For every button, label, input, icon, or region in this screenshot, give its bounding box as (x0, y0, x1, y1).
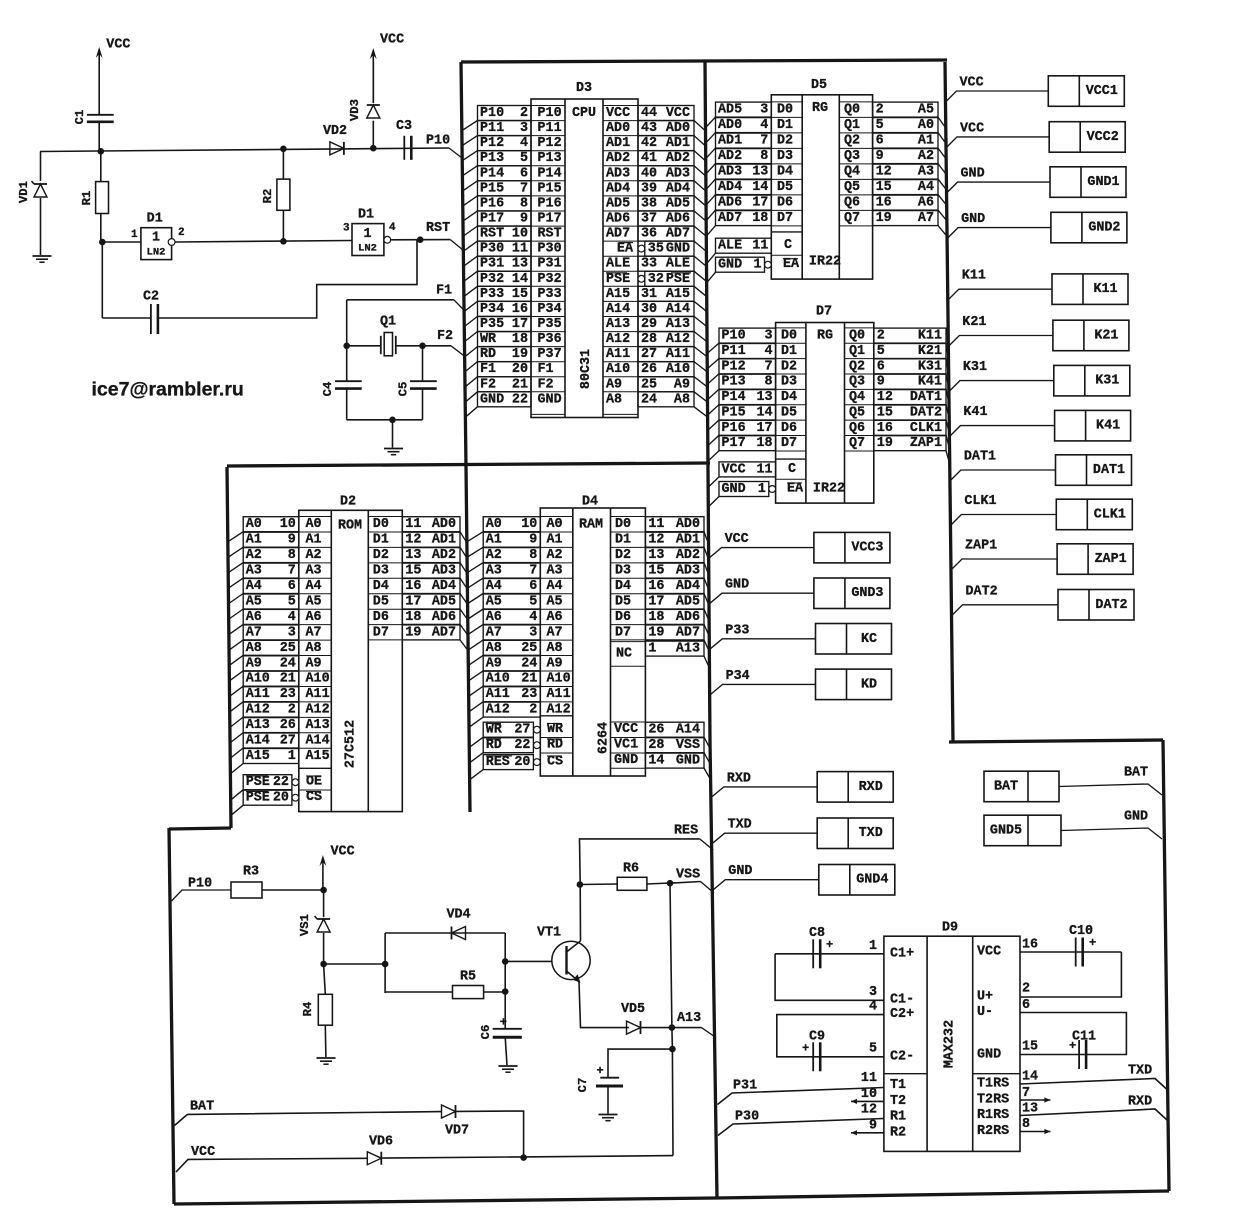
svg-text:VD5: VD5 (621, 1002, 645, 1017)
svg-text:C2: C2 (143, 290, 159, 305)
node junction R6/VSS/C7 riser (667, 880, 674, 887)
wire flag pin 26 net A10 at D3 right (638, 362, 694, 377)
svg-text:VCC: VCC (191, 1145, 215, 1160)
wire flag net GND pin 1 at D5 EA input (716, 257, 765, 272)
svg-text:2: 2 (288, 703, 296, 718)
wire flag net AD4 pin 14 at D5 left (716, 180, 772, 195)
wire flag net A11 pin 23 at D2 left (243, 687, 299, 702)
wire net GND from central bus to GND3 connector (710, 593, 814, 603)
wire flag net A8 pin 25 at D2 left (243, 640, 299, 655)
svg-text:VCC: VCC (106, 38, 130, 53)
svg-text:P31: P31 (538, 257, 562, 272)
svg-text:Q2: Q2 (849, 359, 865, 374)
svg-text:VCC: VCC (380, 33, 404, 48)
wire C10 loop to pin 2 (1020, 952, 1121, 997)
svg-text:AD6: AD6 (676, 610, 700, 625)
svg-text:5: 5 (529, 595, 537, 610)
wire bottom border of bottom-left block (174, 1198, 717, 1204)
svg-text:7: 7 (520, 181, 528, 196)
wire right bus of bottom-right block (1163, 740, 1169, 1191)
wire C2 to RST riser (158, 240, 417, 318)
svg-text:A0: A0 (547, 517, 563, 532)
wire flag net P16 pin 17 at D7 left (719, 420, 776, 435)
wire flag net P17 pin 9 at D3 left (478, 211, 532, 226)
svg-text:AD7: AD7 (606, 227, 630, 242)
svg-text:C4: C4 (321, 381, 335, 396)
node junction base wire (502, 958, 509, 965)
svg-text:RXD: RXD (859, 780, 883, 795)
svg-text:24: 24 (521, 656, 537, 671)
svg-text:+: + (597, 1064, 604, 1078)
wire flag pin 2 net A5 at D5 right (873, 102, 938, 117)
wire flag net P15 pin 7 at D3 left (478, 181, 532, 196)
wire flag net A11 pin 23 at D4 left (483, 687, 540, 702)
svg-text:A8: A8 (246, 641, 262, 656)
wire flag pin 29 net A13 at D3 right (638, 317, 694, 332)
wire right side of VD4/R5 loop (504, 933, 506, 992)
svg-text:A10: A10 (547, 672, 571, 687)
svg-text:1: 1 (288, 749, 296, 764)
svg-text:A6: A6 (486, 610, 502, 625)
svg-text:8: 8 (765, 375, 773, 390)
svg-text:AD4: AD4 (718, 180, 742, 195)
wire node to R4 (324, 964, 326, 994)
resistor R5 (385, 991, 452, 993)
node KC connector (816, 624, 892, 655)
wire flag pin 19 net AD7 at D4 right (645, 625, 704, 640)
svg-text:CLK1: CLK1 (964, 494, 996, 509)
diode VD6 (367, 1152, 381, 1165)
wire flag net AD5 pin 3 at D5 left (716, 102, 772, 117)
svg-text:EA: EA (787, 482, 804, 497)
svg-text:AD5: AD5 (676, 595, 700, 610)
wire flag net A9 pin 24 at D4 left (483, 656, 540, 671)
svg-text:P35: P35 (538, 317, 562, 332)
svg-text:15: 15 (512, 287, 528, 302)
pin NC of D4 (611, 641, 646, 643)
wire flag pin 26 net A14 at D4 (645, 722, 704, 737)
svg-text:P34: P34 (726, 669, 750, 684)
svg-text:P33: P33 (480, 287, 504, 302)
svg-text:P33: P33 (725, 623, 749, 638)
node junction C1/R1 (98, 148, 105, 155)
svg-text:A13: A13 (306, 718, 330, 733)
svg-text:3: 3 (529, 625, 537, 640)
svg-text:VCC: VCC (606, 106, 630, 121)
wire VCC line from left bus (176, 1158, 367, 1172)
wire flag pin 28 net VSS at D4 (645, 738, 704, 753)
svg-text:A3: A3 (246, 564, 262, 579)
svg-text:GND: GND (728, 864, 752, 879)
wire flag pin 1 net A13 at D4 NC pin (645, 641, 704, 656)
wire central vertical bus (705, 62, 717, 1198)
wire flag net P10 pin 2 at D3 left (478, 106, 532, 121)
svg-text:6: 6 (876, 134, 884, 149)
svg-text:P14: P14 (538, 166, 562, 181)
svg-text:5: 5 (877, 344, 885, 359)
svg-text:D7: D7 (615, 625, 631, 640)
wire crystal to F2 node (396, 345, 451, 347)
wire C4 C5 common to ground (346, 389, 348, 420)
svg-text:CLK1: CLK1 (910, 421, 942, 436)
svg-text:A0: A0 (486, 517, 502, 532)
node TXD connector (817, 818, 893, 849)
svg-text:EA: EA (617, 242, 634, 257)
wire flag net GND pin 22 at D3 left (478, 392, 532, 407)
svg-text:D4: D4 (582, 495, 598, 510)
svg-text:A9: A9 (246, 656, 262, 671)
svg-text:A5: A5 (486, 595, 502, 610)
node junction rail/R2 (280, 146, 287, 153)
svg-text:Q7: Q7 (844, 211, 860, 226)
wire flag pin 15 net AD3 at D2 right (402, 563, 460, 578)
svg-text:38: 38 (641, 196, 657, 211)
svg-text:26: 26 (648, 723, 664, 738)
svg-text:AD6: AD6 (666, 212, 690, 227)
wire collector to RES corner (580, 839, 700, 885)
svg-text:13: 13 (648, 548, 664, 563)
wire R4 to ground (324, 1025, 327, 1057)
svg-text:A6: A6 (918, 196, 934, 211)
svg-text:6: 6 (520, 166, 528, 181)
svg-text:17: 17 (648, 595, 664, 610)
wire R2RS stub with arrow (1020, 1131, 1050, 1133)
wire main horizontal VCC rail (40, 148, 449, 152)
svg-text:A5: A5 (306, 595, 322, 610)
diode VD7 (442, 1105, 456, 1118)
svg-text:C1-: C1- (890, 993, 914, 1008)
svg-text:Q0: Q0 (849, 329, 865, 344)
wire flag pin 15 net DAT2 at D7 right (874, 405, 946, 420)
svg-text:7: 7 (765, 359, 773, 374)
wire flag pin 19 net A7 at D5 right (873, 211, 938, 226)
svg-text:D6: D6 (373, 610, 389, 625)
svg-text:RES: RES (674, 824, 698, 839)
svg-text:1: 1 (758, 482, 766, 497)
svg-text:C11: C11 (1072, 1030, 1096, 1045)
wire flag pin 16 net AD4 at D2 right (402, 579, 460, 594)
node junction VD4/R5 left (382, 961, 389, 968)
zener diode VS1 (323, 890, 325, 917)
svg-text:9: 9 (877, 375, 885, 390)
wire F2 into left bus (451, 346, 465, 357)
node junction crystal left (343, 343, 350, 350)
svg-text:P11: P11 (538, 121, 562, 136)
wire node to R1 (100, 152, 102, 182)
svg-text:A5: A5 (918, 103, 934, 118)
wire P31 from central bus to D9 T1 (718, 1088, 884, 1105)
svg-text:36: 36 (641, 227, 657, 242)
svg-text:A8: A8 (547, 641, 563, 656)
svg-text:28: 28 (641, 332, 657, 347)
svg-text:VD1: VD1 (17, 181, 31, 203)
svg-text:Q1: Q1 (844, 118, 860, 133)
svg-text:Q4: Q4 (844, 165, 860, 180)
node K31 connector (1054, 365, 1130, 396)
wire net VCC from right bus to VCC1 connector (947, 91, 1049, 101)
svg-text:C8: C8 (809, 926, 825, 941)
svg-text:4: 4 (288, 610, 296, 625)
svg-text:A1: A1 (306, 533, 322, 548)
svg-text:A1: A1 (246, 533, 262, 548)
svg-text:Q0: Q0 (844, 103, 860, 118)
svg-text:P31: P31 (733, 1079, 757, 1094)
wire flag net GND pin 1 at D7 EA input (719, 482, 769, 497)
svg-text:1: 1 (152, 231, 160, 246)
svg-text:13: 13 (752, 165, 768, 180)
svg-text:8: 8 (288, 548, 296, 563)
svg-text:P34: P34 (538, 302, 562, 317)
wire flag net AD2 pin 8 at D5 left (716, 149, 772, 164)
wire flag net A12 pin 2 at D4 left (483, 702, 540, 717)
svg-text:19: 19 (512, 347, 528, 362)
svg-text:A10: A10 (606, 362, 630, 377)
svg-text:A6: A6 (547, 610, 563, 625)
rom D2 27C512 body (299, 510, 403, 811)
wire bottom cell line left column D3 (531, 413, 565, 415)
svg-text:8: 8 (760, 149, 768, 164)
svg-text:21: 21 (512, 377, 528, 392)
wire flag net P35 pin 17 at D3 left (478, 317, 532, 332)
ground below R4 (317, 1057, 336, 1059)
svg-text:+: + (500, 1016, 507, 1030)
svg-text:K31: K31 (918, 359, 942, 374)
svg-text:C9: C9 (809, 1030, 825, 1045)
svg-text:P12: P12 (480, 136, 504, 151)
wire into crystal (347, 345, 381, 347)
svg-text:15: 15 (1022, 1040, 1038, 1055)
svg-text:8: 8 (1022, 1117, 1030, 1132)
capacitor C9 electrolytic (812, 1042, 814, 1071)
wire flag pin 14 net GND at D4 (645, 753, 704, 768)
svg-text:RXD: RXD (727, 771, 751, 786)
svg-text:D1: D1 (781, 344, 797, 359)
svg-text:AD2: AD2 (432, 548, 456, 563)
svg-text:D1: D1 (147, 212, 163, 227)
svg-text:BAT: BAT (1124, 766, 1148, 781)
svg-text:25: 25 (521, 641, 537, 656)
svg-text:P10: P10 (426, 134, 450, 149)
svg-text:T2: T2 (890, 1094, 906, 1109)
svg-text:Q7: Q7 (849, 436, 865, 451)
wire VD6 to riser bottom (382, 1156, 673, 1159)
svg-text:8: 8 (520, 196, 528, 211)
svg-text:12: 12 (648, 533, 664, 548)
svg-text:A3: A3 (486, 564, 502, 579)
wire RST into left bus (450, 240, 463, 251)
wire flag net RES pin 20 at D4 CS input (483, 755, 533, 770)
svg-text:AD2: AD2 (606, 151, 630, 166)
svg-text:25: 25 (641, 377, 657, 392)
svg-text:17: 17 (757, 421, 773, 436)
svg-text:C1: C1 (73, 110, 87, 125)
svg-text:GND: GND (1124, 810, 1148, 825)
svg-text:AD0: AD0 (606, 121, 630, 136)
wire C2 path from R1 node down (101, 242, 103, 318)
wire RES into central bus (700, 839, 714, 850)
wire flag pin 30 net A14 at D3 right (638, 301, 694, 316)
svg-text:VCC: VCC (725, 532, 749, 547)
svg-text:A13: A13 (606, 317, 630, 332)
wire cell line under D7 row of D5 (771, 225, 802, 227)
svg-text:A15: A15 (306, 749, 330, 764)
node K41 connector (1055, 410, 1131, 441)
svg-text:26: 26 (280, 718, 296, 733)
svg-text:WR: WR (480, 332, 497, 347)
svg-text:12: 12 (877, 390, 893, 405)
svg-text:A14: A14 (606, 302, 630, 317)
svg-text:AD3: AD3 (606, 166, 630, 181)
wire flag net A8 pin 25 at D4 left (483, 640, 540, 655)
node CLK1 connector (1056, 499, 1132, 530)
svg-text:AD7: AD7 (718, 211, 742, 226)
svg-text:KD: KD (861, 677, 877, 692)
node VCC3 connector (814, 532, 890, 563)
wire flag pin 15 net AD3 at D4 right (645, 563, 704, 578)
svg-text:19: 19 (877, 436, 893, 451)
svg-text:ALE: ALE (718, 239, 742, 254)
wire flag net AD6 pin 17 at D5 left (716, 195, 772, 210)
svg-text:K31: K31 (963, 360, 987, 375)
wire cell line under D7 row of D2 (368, 639, 402, 641)
svg-text:A12: A12 (306, 703, 330, 718)
svg-text:6: 6 (877, 359, 885, 374)
svg-text:P13: P13 (480, 151, 504, 166)
svg-text:BAT: BAT (190, 1100, 214, 1115)
wire flag net A2 pin 8 at D4 left (483, 548, 540, 563)
wire flag net F2 pin 21 at D3 left (478, 377, 532, 392)
svg-text:16: 16 (648, 579, 664, 594)
wire flag net P15 pin 14 at D7 left (719, 405, 776, 420)
svg-text:42: 42 (641, 136, 657, 151)
wire flag pin 19 net ZAP1 at D7 right (874, 436, 946, 451)
svg-text:14: 14 (648, 754, 664, 769)
svg-text:40: 40 (641, 166, 657, 181)
wire F1 into left bus (454, 300, 464, 311)
wire flag pin 5 net K21 at D7 right (874, 344, 946, 359)
wire flag net ALE pin 11 at D5 C input (716, 238, 772, 253)
svg-text:D0: D0 (777, 103, 793, 118)
svg-text:Q5: Q5 (849, 406, 865, 421)
svg-text:A11: A11 (486, 687, 510, 702)
node GND2 connector (1051, 212, 1127, 243)
svg-text:P16: P16 (722, 421, 746, 436)
svg-text:P10: P10 (480, 106, 504, 121)
svg-text:RG: RG (812, 101, 828, 116)
svg-text:A1: A1 (486, 533, 502, 548)
svg-text:P17: P17 (480, 212, 504, 227)
wire flag net P17 pin 18 at D7 left (719, 436, 776, 451)
wire flag pin 36 net AD7 at D3 right (638, 226, 694, 241)
wire flag net A9 pin 24 at D2 left (243, 656, 299, 671)
wire top border of D2/D4 memory block (227, 463, 710, 466)
svg-text:A14: A14 (306, 734, 330, 749)
svg-text:14: 14 (757, 406, 773, 421)
svg-text:11: 11 (757, 462, 773, 477)
svg-text:A8: A8 (606, 392, 622, 407)
svg-text:D9: D9 (942, 921, 958, 936)
wire flag pin 44 net VCC at D3 right (638, 106, 694, 121)
svg-text:A4: A4 (918, 180, 934, 195)
wire flag net A10 pin 21 at D2 left (243, 671, 299, 686)
wire flag net P12 pin 4 at D3 left (478, 136, 532, 151)
wire flag net P11 pin 3 at D3 left (478, 121, 532, 136)
wire flag net A6 pin 4 at D4 left (483, 609, 540, 624)
svg-text:WR: WR (547, 722, 564, 737)
svg-text:P31: P31 (480, 257, 504, 272)
svg-text:K41: K41 (918, 375, 942, 390)
svg-text:3: 3 (869, 985, 877, 1000)
svg-text:1: 1 (648, 642, 656, 657)
node VCC1 connector (1048, 76, 1124, 107)
svg-text:F1: F1 (436, 284, 452, 299)
svg-text:5: 5 (869, 1042, 877, 1057)
svg-text:AD3: AD3 (666, 166, 690, 181)
svg-text:17: 17 (752, 196, 768, 211)
svg-text:1: 1 (131, 229, 138, 241)
wire flag pin 18 net AD6 at D2 right (402, 609, 460, 624)
svg-text:P33: P33 (538, 287, 562, 302)
register D5 IR22 body (771, 95, 872, 279)
wire flag net A7 pin 3 at D4 left (483, 625, 540, 640)
wire flag pin 9 net K41 at D7 right (874, 374, 946, 389)
svg-text:RST: RST (426, 221, 450, 236)
wire flag pin 41 net AD2 at D3 right (638, 151, 694, 166)
pin RD of D4 with inversion circle (540, 737, 573, 739)
svg-text:11: 11 (861, 1071, 877, 1086)
svg-text:C6: C6 (479, 1025, 493, 1040)
svg-text:5: 5 (288, 595, 296, 610)
svg-text:TXD: TXD (1128, 1064, 1152, 1079)
svg-text:GND: GND (977, 1048, 1001, 1063)
svg-text:PSE: PSE (246, 775, 270, 790)
svg-text:A15: A15 (246, 749, 270, 764)
power VCC symbol bottom (322, 858, 324, 890)
svg-text:5: 5 (876, 118, 884, 133)
wire F1 net from bus to crystal (347, 299, 454, 301)
wire cell line under D7 row of D4 (611, 639, 646, 641)
svg-text:P15: P15 (480, 181, 504, 196)
svg-text:AD7: AD7 (432, 625, 456, 640)
svg-text:U+: U+ (977, 990, 993, 1005)
diode VD2 (330, 142, 344, 155)
diode VD1 (34, 184, 47, 197)
svg-text:D2: D2 (373, 548, 389, 563)
svg-text:AD4: AD4 (676, 579, 700, 594)
svg-text:11: 11 (648, 517, 664, 532)
wire flag pin 15 net A4 at D5 right (873, 180, 938, 195)
pin C (clock) of D5 sub-section (771, 231, 802, 233)
svg-text:GND: GND (725, 578, 749, 593)
resistor R4 (318, 994, 332, 1025)
wire flag pin 18 net AD6 at D4 right (645, 609, 704, 624)
svg-text:PSE: PSE (666, 272, 690, 287)
wire flag net P31 pin 13 at D3 left (478, 256, 532, 271)
svg-text:29: 29 (641, 317, 657, 332)
svg-text:A11: A11 (547, 687, 571, 702)
wire flag pin 6 net A1 at D5 right (873, 133, 938, 148)
svg-text:4: 4 (520, 136, 528, 151)
wire flag pin 42 net AD1 at D3 right (638, 136, 694, 151)
capacitor C1 (87, 114, 114, 116)
svg-text:P34: P34 (480, 302, 504, 317)
svg-text:4: 4 (529, 610, 537, 625)
wire flag pin 16 net CLK1 at D7 right (874, 420, 946, 435)
svg-text:PSE: PSE (246, 791, 270, 806)
wire flag pin 12 net DAT1 at D7 right (874, 390, 946, 405)
svg-text:P30: P30 (538, 242, 562, 257)
svg-text:27: 27 (514, 723, 530, 738)
